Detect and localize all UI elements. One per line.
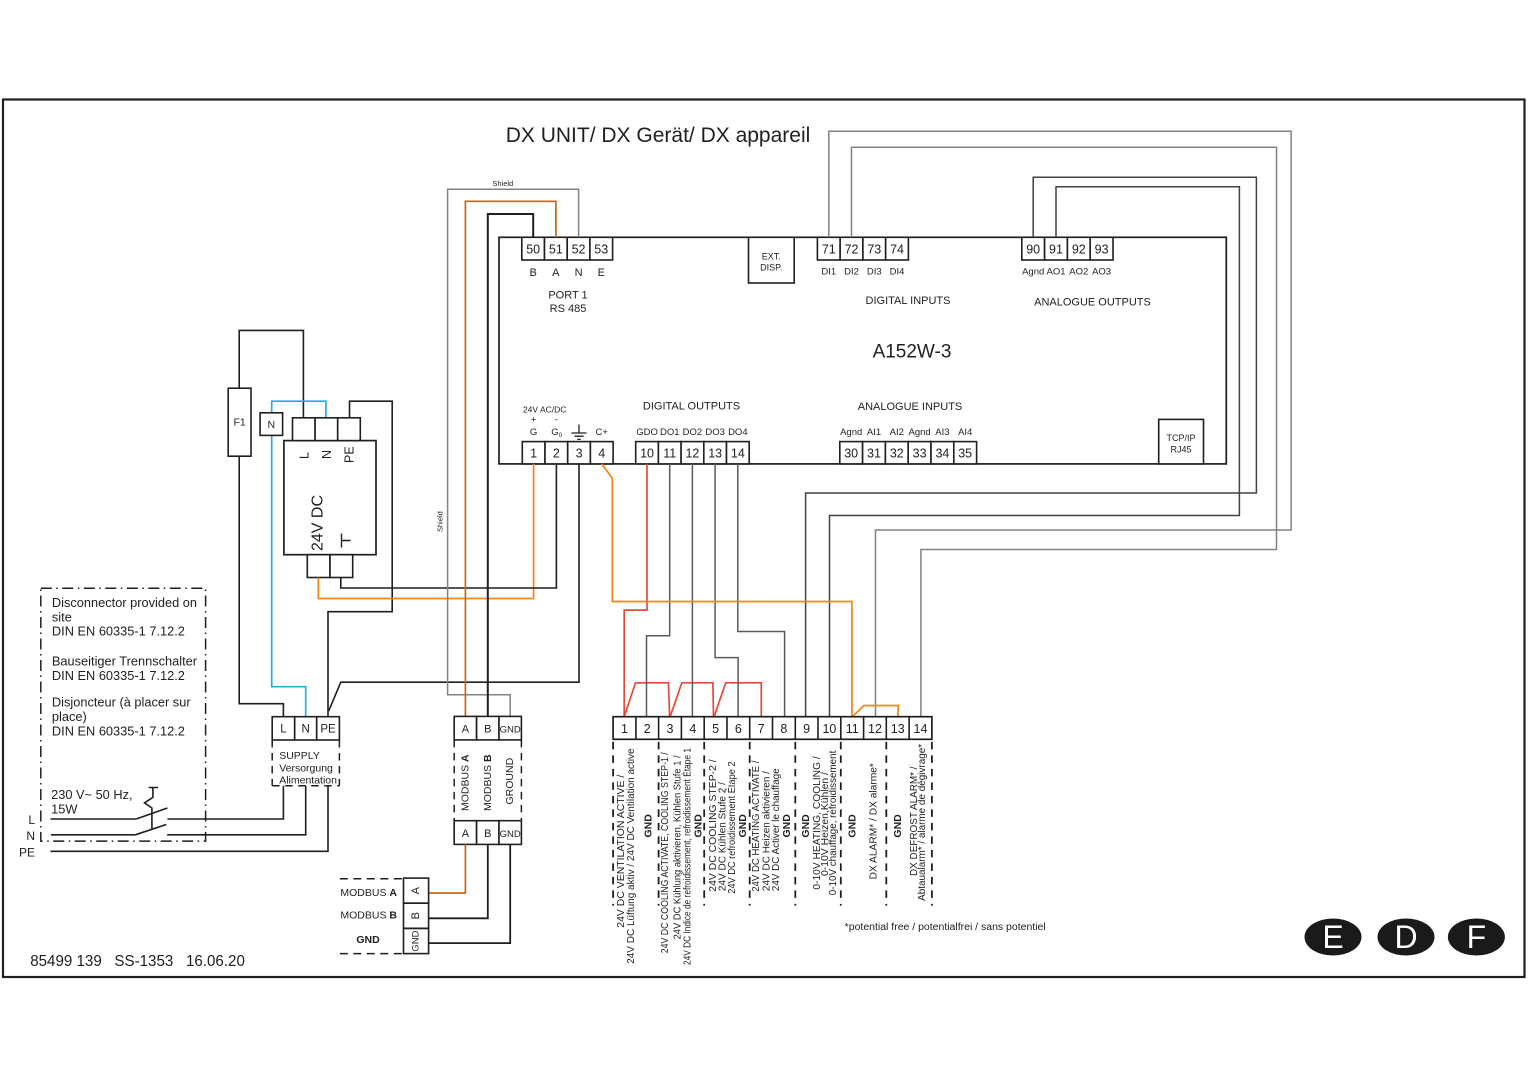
svg-text:4: 4	[598, 447, 605, 461]
wire F1 bottom to supply terminal L	[239, 456, 283, 717]
svg-text:B: B	[484, 828, 491, 840]
svg-text:A: A	[462, 828, 470, 840]
svg-text:GND: GND	[356, 934, 380, 946]
svg-text:8: 8	[780, 722, 787, 736]
terminal block 30-35 analogue inputs	[840, 401, 977, 464]
svg-text:33: 33	[913, 447, 927, 461]
svg-text:10: 10	[640, 447, 654, 461]
wire jumper strip 5-7 red	[714, 683, 761, 717]
svg-text:24V DC: 24V DC	[310, 495, 327, 551]
svg-text:AI4: AI4	[958, 427, 972, 438]
field terminal strip 1-14	[613, 717, 932, 740]
svg-text:-: -	[555, 415, 558, 426]
svg-text:DISP.: DISP.	[760, 263, 782, 273]
wire DI1 terminal 71 to strip 12	[829, 131, 1291, 717]
svg-text:Shield: Shield	[436, 511, 445, 532]
svg-text:MODBUS A: MODBUS A	[340, 887, 397, 899]
svg-text:A: A	[410, 886, 422, 894]
svg-text:DI4: DI4	[890, 267, 905, 278]
svg-text:SUPPLY: SUPPLY	[279, 750, 320, 762]
power supply 24V DC	[284, 418, 376, 578]
svg-text:1: 1	[530, 447, 537, 461]
svg-text:34: 34	[935, 447, 949, 461]
svg-text:93: 93	[1095, 243, 1109, 257]
svg-text:DX ALARM* / DX alarme*: DX ALARM* / DX alarme*	[869, 763, 880, 879]
wire modbus B upper to lower	[429, 844, 488, 918]
wire L mains to switch	[51, 818, 137, 820]
svg-text:DO4: DO4	[728, 427, 748, 438]
svg-text:GND: GND	[892, 814, 904, 838]
wire GDO red terminal 10 to strip 1	[624, 464, 647, 717]
wire shield loop terminal 52 to GND	[448, 189, 579, 716]
wire DO3 terminal 13 to strip 6	[715, 464, 738, 717]
svg-text:12: 12	[685, 447, 699, 461]
revision mark D	[1378, 919, 1435, 956]
svg-text:place): place)	[52, 709, 87, 724]
wire G orange from PSU + tab to controller terminal 1	[318, 464, 533, 599]
svg-text:2: 2	[644, 722, 651, 736]
svg-text:GND: GND	[693, 814, 705, 838]
svg-text:30: 30	[844, 447, 858, 461]
controller U1 A152W-3	[499, 237, 1226, 464]
terminal block 50-53 PORT1 RS485	[522, 237, 613, 315]
svg-text:4: 4	[689, 722, 696, 736]
svg-text:7: 7	[758, 722, 765, 736]
svg-text:G: G	[530, 427, 537, 438]
svg-text:EXT.: EXT.	[762, 252, 781, 262]
svg-text:24V DC COOLING ACTIVATE, COOLI: 24V DC COOLING ACTIVATE, COOLING STEP-1 …	[660, 752, 671, 953]
svg-text:11: 11	[663, 447, 676, 461]
wire DO4 terminal 14 to strip 8	[738, 464, 785, 717]
svg-text:53: 53	[594, 243, 608, 257]
terminal block 10-14 digital outputs	[636, 401, 750, 464]
svg-text:E: E	[1322, 919, 1343, 955]
wire jumper strip 3-5 red	[670, 683, 713, 717]
wire G0 black from PSU - tab to controller terminal 2	[341, 464, 557, 588]
wire PE from supply PE around PSU to PE tab	[328, 401, 392, 717]
svg-text:DO1: DO1	[660, 427, 680, 438]
disconnector switch S1	[135, 788, 167, 835]
svg-text:MODBUS B: MODBUS B	[340, 909, 397, 921]
terminal block 1-4 24V AC/DC supply input	[522, 405, 613, 464]
svg-text:DIN EN 60335-1 7.12.2: DIN EN 60335-1 7.12.2	[52, 668, 185, 683]
svg-text:N: N	[26, 829, 35, 843]
svg-text:L: L	[28, 813, 35, 827]
svg-text:N: N	[575, 267, 583, 279]
svg-text:MODBUS A: MODBUS A	[459, 754, 471, 811]
revision mark F	[1448, 919, 1505, 956]
svg-text:DX UNIT/ DX Gerät/ DX appareil: DX UNIT/ DX Gerät/ DX appareil	[506, 124, 811, 147]
svg-text:72: 72	[845, 243, 859, 257]
svg-text:B: B	[410, 912, 422, 919]
wire MODBUS B black terminal 50	[488, 214, 533, 716]
wire modbus A upper to lower	[429, 844, 466, 893]
svg-text:Shield: Shield	[492, 179, 513, 188]
svg-text:Disjoncteur (à placer sur: Disjoncteur (à placer sur	[52, 695, 191, 710]
svg-text:GND: GND	[737, 814, 749, 838]
svg-text:85499 139 SS-1353 16.06.20: 85499 139 SS-1353 16.06.20	[30, 953, 245, 970]
svg-text:12: 12	[868, 722, 882, 736]
svg-text:A152W-3: A152W-3	[873, 342, 952, 363]
svg-text:24V AC/DC: 24V AC/DC	[523, 405, 566, 415]
modbus field terminal block lower	[340, 878, 429, 954]
svg-text:E: E	[598, 267, 605, 279]
svg-text:GND: GND	[643, 814, 655, 838]
wire PE branch to controller terminal 3	[329, 464, 579, 711]
svg-text:31: 31	[867, 447, 881, 461]
svg-text:32: 32	[890, 447, 904, 461]
svg-text:A: A	[552, 267, 560, 279]
svg-text:Agnd: Agnd	[840, 427, 862, 438]
svg-text:91: 91	[1049, 243, 1063, 257]
svg-text:PE: PE	[343, 446, 357, 463]
svg-text:DIGITAL OUTPUTS: DIGITAL OUTPUTS	[643, 401, 740, 413]
svg-text:6: 6	[735, 722, 742, 736]
svg-text:90: 90	[1026, 243, 1040, 257]
svg-text:L: L	[298, 452, 312, 459]
svg-text:A: A	[462, 724, 470, 736]
svg-text:0: 0	[559, 432, 563, 439]
svg-text:B: B	[529, 267, 536, 279]
revision mark E	[1305, 919, 1362, 956]
wire jumper strip 11-13 orange	[852, 706, 898, 717]
svg-text:TCP/IP: TCP/IP	[1166, 433, 1195, 443]
svg-text:14: 14	[914, 722, 928, 736]
svg-text:GND: GND	[411, 930, 422, 951]
svg-text:N: N	[302, 724, 310, 736]
svg-text:GND: GND	[781, 814, 793, 838]
svg-text:site: site	[52, 609, 72, 624]
svg-text:GROUND: GROUND	[504, 757, 516, 804]
svg-text:24V DC Lüftung aktiv / 24V DC: 24V DC Lüftung aktiv / 24V DC Ventilatio…	[626, 748, 637, 964]
svg-text:GND: GND	[500, 829, 521, 840]
svg-text:Disconnector provided on: Disconnector provided on	[52, 595, 197, 610]
svg-text:C+: C+	[595, 427, 608, 438]
svg-text:PE: PE	[19, 846, 35, 860]
svg-text:GDO: GDO	[636, 427, 658, 438]
svg-text:AO1: AO1	[1046, 267, 1065, 278]
wire N blue from supply N to PSU N tab	[272, 401, 326, 717]
fuse F1	[228, 388, 251, 456]
svg-text:AI3: AI3	[935, 427, 949, 438]
svg-text:GND: GND	[800, 814, 812, 838]
wire DO2 terminal 12 to strip 4	[691, 464, 693, 717]
wire jumper strip 1-3 red	[624, 683, 669, 717]
svg-text:DI3: DI3	[867, 267, 882, 278]
svg-text:DO2: DO2	[683, 427, 703, 438]
neutral link box N	[260, 413, 283, 436]
modbus terminal block upper A B GND	[454, 716, 521, 844]
svg-text:71: 71	[822, 243, 836, 257]
svg-text:DI2: DI2	[844, 267, 859, 278]
wire Agnd terminal 90 to strip 9	[806, 177, 1257, 717]
svg-text:DIN EN 60335-1 7.12.2: DIN EN 60335-1 7.12.2	[52, 723, 185, 738]
wire N mains to switch	[51, 834, 135, 836]
svg-text:Abtaualarm* / alarme de dégivr: Abtaualarm* / alarme de dégivrage*	[917, 744, 928, 901]
svg-text:GND: GND	[847, 814, 859, 838]
svg-text:PE: PE	[320, 724, 336, 736]
svg-text:51: 51	[549, 243, 563, 257]
svg-text:MODBUS B: MODBUS B	[482, 754, 494, 811]
wire AO1 terminal 91 to strip 10	[830, 187, 1240, 717]
wire modbus GND upper to lower	[429, 844, 511, 943]
svg-text:AO2: AO2	[1069, 267, 1088, 278]
svg-text:ANALOGUE OUTPUTS: ANALOGUE OUTPUTS	[1034, 297, 1151, 309]
svg-text:+: +	[531, 415, 537, 426]
svg-text:RJ45: RJ45	[1170, 445, 1191, 455]
earth symbol on controller terminal 3	[572, 425, 587, 440]
wire DI2 terminal 72 to strip 14	[852, 147, 1277, 717]
svg-text:*potential free / potentialfre: *potential free / potentialfrei / sans p…	[845, 922, 1046, 933]
svg-text:3: 3	[576, 447, 583, 461]
svg-text:Bauseitiger Trennschalter: Bauseitiger Trennschalter	[52, 654, 198, 669]
svg-text:DO3: DO3	[705, 427, 725, 438]
dashed group separators	[613, 742, 932, 906]
svg-text:50: 50	[526, 243, 540, 257]
wire PE mains to supply terminal	[50, 786, 328, 852]
svg-text:DIN EN 60335-1 7.12.2: DIN EN 60335-1 7.12.2	[52, 624, 185, 639]
svg-text:0-10V chauffage, refroidisseme: 0-10V chauffage, refroidissement	[828, 750, 839, 895]
svg-text:B: B	[484, 724, 491, 736]
wire L switch to supply terminal	[167, 786, 283, 819]
svg-text:AI2: AI2	[890, 427, 904, 438]
svg-text:N: N	[320, 450, 334, 459]
svg-text:Versorgung: Versorgung	[279, 762, 333, 774]
svg-text:11: 11	[846, 722, 859, 736]
svg-text:2: 2	[553, 447, 560, 461]
svg-text:Agnd: Agnd	[1022, 267, 1044, 278]
svg-text:PORT 1: PORT 1	[548, 290, 587, 302]
svg-text:G: G	[551, 427, 558, 438]
svg-text:13: 13	[708, 447, 722, 461]
svg-text:73: 73	[867, 243, 881, 257]
terminal block 90-93 analogue outputs	[1022, 237, 1151, 308]
svg-text:14: 14	[731, 447, 745, 461]
wire MODBUS A orange terminal 51	[465, 201, 556, 716]
svg-text:F1: F1	[233, 417, 245, 429]
terminal block 71-74 digital inputs	[817, 237, 950, 307]
svg-text:5: 5	[712, 722, 719, 736]
svg-text:Alimentation: Alimentation	[279, 775, 337, 787]
svg-text:92: 92	[1072, 243, 1086, 257]
svg-text:AI1: AI1	[867, 427, 881, 438]
svg-text:35: 35	[958, 447, 972, 461]
display connector EXT.DISP.	[749, 237, 795, 283]
svg-text:9: 9	[803, 722, 810, 736]
svg-text:D: D	[1394, 919, 1417, 955]
wire N switch to supply terminal	[167, 786, 306, 835]
svg-text:3: 3	[667, 722, 674, 736]
svg-text:AO3: AO3	[1092, 267, 1111, 278]
TCP/IP RJ45 port	[1159, 419, 1204, 464]
svg-text:DIGITAL INPUTS: DIGITAL INPUTS	[866, 295, 951, 307]
svg-text:DI1: DI1	[821, 267, 836, 278]
svg-text:74: 74	[890, 243, 904, 257]
supply terminal block L N PE	[272, 717, 339, 787]
wire C+ orange terminal 4 to strip 11	[602, 464, 852, 717]
svg-text:13: 13	[891, 722, 905, 736]
svg-text:24V DC Indice de refroidisseme: 24V DC Indice de refroidissement, refroi…	[680, 748, 693, 965]
svg-text:L: L	[280, 724, 287, 736]
disconnector note box	[41, 588, 206, 841]
strip signal labels (rotated)	[616, 744, 928, 965]
svg-text:230 V~ 50 Hz,: 230 V~ 50 Hz,	[51, 787, 132, 802]
svg-text:52: 52	[572, 243, 586, 257]
svg-text:1: 1	[621, 722, 628, 736]
svg-text:GND: GND	[500, 725, 521, 736]
svg-text:ANALOGUE INPUTS: ANALOGUE INPUTS	[858, 401, 963, 413]
svg-text:Agnd: Agnd	[909, 427, 931, 438]
svg-text:10: 10	[822, 722, 836, 736]
svg-text:15W: 15W	[51, 801, 78, 816]
svg-text:N: N	[268, 419, 276, 431]
wire DO1 terminal 11 to strip 2	[647, 464, 670, 717]
svg-text:F: F	[1467, 919, 1487, 955]
svg-text:24V DC refroidissement Étape 2: 24V DC refroidissement Étape 2	[725, 761, 738, 894]
wire L from fuse F1 to PSU L tab	[239, 330, 303, 417]
svg-text:RS 485: RS 485	[550, 303, 587, 315]
